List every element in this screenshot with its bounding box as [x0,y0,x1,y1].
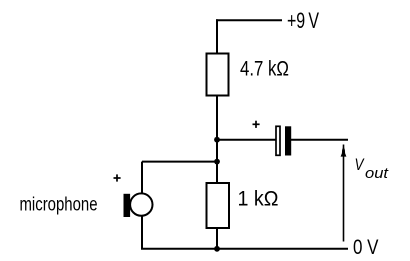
svg-text:0 V: 0 V [353,236,379,259]
svg-text:out: out [365,165,389,182]
svg-text:4.7 kΩ: 4.7 kΩ [240,57,289,81]
svg-text:+9 V: +9 V [287,8,319,33]
svg-text:1 kΩ: 1 kΩ [238,187,279,211]
svg-text:V: V [355,155,365,174]
svg-text:microphone: microphone [20,195,98,216]
